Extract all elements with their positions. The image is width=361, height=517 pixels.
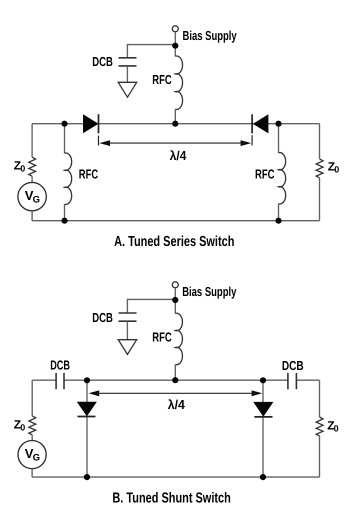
capacitor DCB series left (55, 373, 57, 389)
node junction dot top center (172, 121, 178, 127)
svg-text:0: 0 (334, 424, 339, 434)
ground (118, 82, 137, 97)
wire bias stub B (174, 288, 176, 300)
wire resistor to source (31, 176, 33, 182)
node junction dot bottom right (275, 218, 281, 224)
diode D1 (series, left) (83, 114, 99, 133)
wire to DCB (127, 45, 175, 58)
svg-text:RFC: RFC (152, 72, 172, 87)
svg-text:RFC: RFC (255, 167, 275, 182)
svg-text:λ/4: λ/4 (168, 397, 186, 412)
wire right shunt branch B (262, 380, 264, 402)
wire bottom rail B (32, 476, 319, 478)
svg-text:0: 0 (20, 423, 25, 433)
capacitor DCB series right (287, 373, 289, 389)
svg-text:Bias Supply: Bias Supply (183, 28, 238, 43)
svg-text:λ/4: λ/4 (170, 148, 187, 163)
wire bottom rail (32, 220, 319, 222)
wire left vertical (31, 124, 33, 158)
capacitor DCB (bias blocking) (119, 57, 137, 59)
node junction dot bottom right B (260, 474, 266, 480)
svg-text:0: 0 (20, 164, 25, 174)
arrowhead lambda/4 right (241, 140, 252, 146)
source VG B (18, 441, 46, 469)
svg-text:DCB: DCB (50, 358, 70, 373)
node junction dot at bias B (172, 297, 178, 303)
node junction dot main right B (260, 377, 266, 383)
wire bias stub (174, 32, 176, 46)
capacitor DCB (bias blocking) B (119, 312, 137, 314)
node junction dot main left B (84, 377, 90, 383)
ground B (118, 340, 137, 355)
svg-text:G: G (33, 452, 40, 463)
inductor RFC left shunt (64, 124, 66, 154)
wire to DCB B (127, 299, 175, 312)
wire cap to ground B (126, 321, 128, 339)
dim line lambda/4 B (95, 392, 256, 394)
node junction dot bottom left (61, 218, 67, 224)
dim extension line left (98, 136, 100, 146)
inductor RFC right shunt (278, 124, 280, 153)
svg-text:B. Tuned Shunt Switch: B. Tuned Shunt Switch (112, 490, 230, 506)
arrowhead lambda/4 left (99, 140, 110, 146)
bias supply terminal (open circle) B (172, 282, 178, 288)
diode D4 cathode bar (254, 416, 272, 418)
node junction dot top right (275, 121, 281, 127)
resistor Z0 right B (316, 417, 323, 436)
node junction dot main center B (172, 377, 178, 383)
svg-text:G: G (33, 194, 40, 205)
node junction dot top left (61, 121, 67, 127)
wire left vertical B (31, 380, 33, 416)
resistor Z0 left B (29, 416, 36, 435)
diode D2 cathode bar (251, 114, 253, 133)
svg-text:DCB: DCB (92, 54, 113, 69)
wire right vertical B (319, 380, 321, 417)
wire cap to ground (126, 66, 128, 82)
source VG (18, 182, 46, 210)
arrowhead lambda/4 left B (89, 390, 100, 396)
diode D1 cathode bar (98, 114, 100, 133)
svg-text:Bias Supply: Bias Supply (182, 284, 237, 299)
svg-text:RFC: RFC (79, 167, 99, 182)
wire source to bottom rail (31, 211, 33, 221)
svg-text:DCB: DCB (92, 310, 113, 325)
wire main rail segments B (32, 379, 56, 381)
inductor RFC (bias feed) B (174, 300, 176, 314)
svg-text:RFC: RFC (152, 329, 172, 344)
wire top rail (32, 123, 319, 125)
inductor RFC (bias feed) (174, 46, 176, 57)
wire left shunt branch B (86, 380, 88, 402)
wire right vertical (319, 124, 321, 159)
diode D3 cathode bar (78, 416, 96, 418)
diode D2 (series, right) (253, 114, 269, 133)
node junction dot at bias (172, 43, 178, 49)
svg-text:0: 0 (334, 165, 339, 175)
diode D3 (shunt, left) (77, 402, 97, 417)
arrowhead lambda/4 right B (252, 390, 263, 396)
resistor Z0 right (316, 159, 323, 178)
dim line lambda/4 (106, 142, 245, 144)
diode D4 (shunt, right) (253, 402, 273, 417)
resistor Z0 left (29, 157, 36, 176)
bias supply terminal (open circle) (172, 26, 178, 32)
svg-text:DCB: DCB (282, 358, 304, 373)
node junction dot bottom left B (84, 474, 90, 480)
svg-text:A. Tuned Series Switch: A. Tuned Series Switch (114, 234, 234, 250)
dim extension line right (251, 135, 253, 145)
